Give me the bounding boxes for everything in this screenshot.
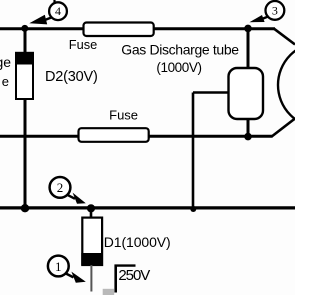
- svg-text:D1(1000V): D1(1000V): [104, 234, 171, 250]
- wire D1 top lead: [90, 208, 93, 221]
- svg-text:D2(30V): D2(30V): [45, 69, 98, 85]
- callout 3 arrowhead: [249, 15, 264, 22]
- callout 4 leader tick: [53, 0, 55, 3]
- diode D1 cathode band: [81, 253, 103, 265]
- fuse F1: [84, 23, 154, 37]
- label 250V bracket horizontal: [115, 264, 136, 266]
- gas discharge tube GDT1 body: [229, 68, 264, 119]
- callout 4 arrowhead: [29, 15, 47, 25]
- wire left vertical upper (top wire to D2): [24, 29, 27, 55]
- gas discharge tube GDT2 (cropped circle at right edge): [278, 43, 320, 128]
- label 250V bracket vertical: [114, 265, 117, 293]
- wire left vertical lower (D2 to bottom wire): [24, 99, 27, 208]
- wire GDT1 left pin vertical down to bottom wire: [192, 93, 195, 209]
- diode D1 body: [82, 218, 102, 265]
- diode D2 body: [16, 53, 33, 99]
- callout 1 arrow connector: [66, 273, 74, 277]
- svg-text:4: 4: [55, 4, 61, 18]
- wire top-right diagonal lead into tube: [274, 29, 295, 45]
- wire middle horizontal right segment: [149, 135, 273, 138]
- node GDT1 pin bottom junction: [190, 206, 196, 212]
- svg-text:Gas Discharge tube: Gas Discharge tube: [121, 41, 239, 57]
- callout 2 circle: [50, 177, 71, 198]
- wire middle horizontal left segment: [0, 135, 80, 138]
- svg-text:3: 3: [272, 4, 278, 18]
- callout 1 arrowhead: [71, 272, 85, 283]
- svg-text:(1000V): (1000V): [156, 60, 201, 75]
- cropped grey object at bottom edge: [103, 289, 115, 295]
- wire top horizontal left segment: [0, 27, 85, 30]
- wire D1 bottom lead: [90, 265, 92, 292]
- callout 4 circle: [49, 2, 67, 20]
- callout 2 arrow connector: [67, 195, 75, 199]
- wire GDT1 left pin horizontal: [193, 91, 229, 94]
- wire node3 down to GDT1 top: [247, 29, 250, 69]
- callout 4 arrow connector: [46, 17, 53, 20]
- svg-text:Fuse: Fuse: [109, 108, 138, 123]
- wire GDT1 bottom to node: [247, 119, 250, 137]
- svg-text:e: e: [2, 74, 9, 89]
- callout 3 arrow connector: [263, 16, 269, 18]
- node D1 top junction: [87, 204, 95, 212]
- svg-text:1: 1: [55, 259, 62, 274]
- node bottom-left junction: [21, 204, 29, 212]
- svg-text:Fuse: Fuse: [69, 37, 97, 52]
- svg-text:ge: ge: [0, 54, 11, 70]
- callout 3 circle: [266, 1, 285, 20]
- callout 3 leader tick: [275, 0, 277, 2]
- node top-left junction: [21, 25, 28, 32]
- wire bottom horizontal full width: [0, 206, 295, 209]
- svg-text:250V: 250V: [118, 267, 150, 284]
- callout 1 circle: [48, 256, 69, 277]
- wire middle-right diagonal lead into tube: [272, 119, 295, 137]
- wire top horizontal right segment: [154, 27, 275, 30]
- fuse F2: [79, 128, 149, 142]
- node 3 junction: [244, 25, 252, 33]
- callout 2 arrowhead: [73, 193, 86, 204]
- svg-text:2: 2: [57, 180, 64, 195]
- node GDT1 bottom junction: [244, 133, 252, 141]
- diode D2 cathode band: [16, 52, 34, 64]
